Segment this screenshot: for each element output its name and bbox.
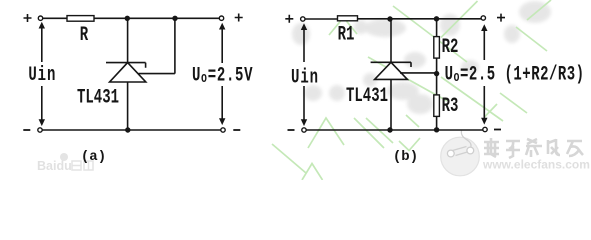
svg-text:R2: R2 (442, 36, 459, 59)
svg-text:(a): (a) (81, 149, 106, 165)
wire bottom rail (b) (306, 129, 483, 131)
terminal output- (a) (221, 128, 225, 132)
label - (output negative, b) (494, 129, 501, 131)
node cathode junction (a) (125, 16, 130, 21)
wire divider middle (b) (436, 58, 438, 95)
svg-text:Uin: Uin (28, 64, 56, 87)
svg-text:TL431: TL431 (346, 85, 388, 108)
svg-text:Uin: Uin (291, 66, 319, 89)
resistor R3 (434, 95, 440, 117)
circuit (a) (23, 14, 253, 166)
label - (output negative, a) (233, 129, 240, 131)
wire ref (b) (400, 72, 436, 74)
svg-text:R3: R3 (442, 95, 459, 118)
Uin voltage arrow (b) (301, 23, 307, 126)
label + (input positive, a) (24, 14, 32, 22)
terminal input+ (a) (38, 16, 42, 20)
Uo voltage arrow (a) (219, 23, 225, 125)
Uin voltage arrow (a) (39, 22, 45, 126)
terminal input- (b) (302, 128, 306, 132)
node anode junction (a) (125, 127, 130, 132)
label + (output positive, a) (235, 14, 243, 22)
node divider-bottom junction (b) (434, 127, 439, 132)
node anode junction (b) (387, 127, 392, 132)
wire anode (b) (390, 79, 392, 128)
node feedback junction (b) (434, 71, 439, 76)
wire divider bottom (b) (436, 116, 438, 128)
svg-text:Baidu: Baidu (37, 159, 72, 173)
label - (input negative, a) (23, 129, 30, 131)
label + (output positive, b) (497, 14, 505, 22)
wire top rail left (b) (305, 18, 338, 20)
wire cathode (a) (127, 20, 129, 63)
label + (input positive, b) (285, 15, 293, 23)
resistor R1 (338, 16, 358, 21)
wire top rail right (a) (94, 17, 219, 19)
wire top rail right (b) (358, 18, 482, 20)
wire anode (a) (127, 82, 129, 128)
svg-text:(b): (b) (393, 149, 418, 165)
svg-text:R1: R1 (338, 23, 355, 46)
terminal input+ (b) (301, 17, 305, 21)
terminal output+ (b) (481, 16, 485, 20)
terminal output- (b) (483, 127, 487, 131)
label - (input negative, b) (288, 129, 295, 131)
wire top rail left (a) (43, 17, 67, 19)
op-amp U2 TL431 (b) symbol (371, 62, 411, 79)
wire divider top (b) (436, 20, 438, 37)
wire cathode (b) (390, 20, 392, 62)
svg-text:Uo=2.5 (1+R2/R3): Uo=2.5 (1+R2/R3) (445, 63, 585, 86)
Uo voltage arrow (b) (481, 24, 487, 124)
node ref junction (a) (172, 16, 177, 21)
svg-text:www.elecfans.com: www.elecfans.com (482, 158, 590, 172)
circuit (b) (285, 14, 584, 165)
resistor R2 (434, 37, 440, 59)
wire bottom rail (a) (42, 129, 221, 131)
svg-text:TL431: TL431 (77, 86, 119, 109)
svg-text:R: R (80, 24, 89, 47)
wire ref (a) (139, 20, 175, 73)
resistor R (67, 16, 94, 22)
node cathode junction (b) (387, 16, 392, 21)
node divider-top junction (b) (434, 16, 439, 21)
terminal input- (a) (38, 128, 42, 132)
terminal output+ (a) (219, 16, 223, 20)
op-amp U1 TL431 (a) symbol (106, 63, 146, 82)
